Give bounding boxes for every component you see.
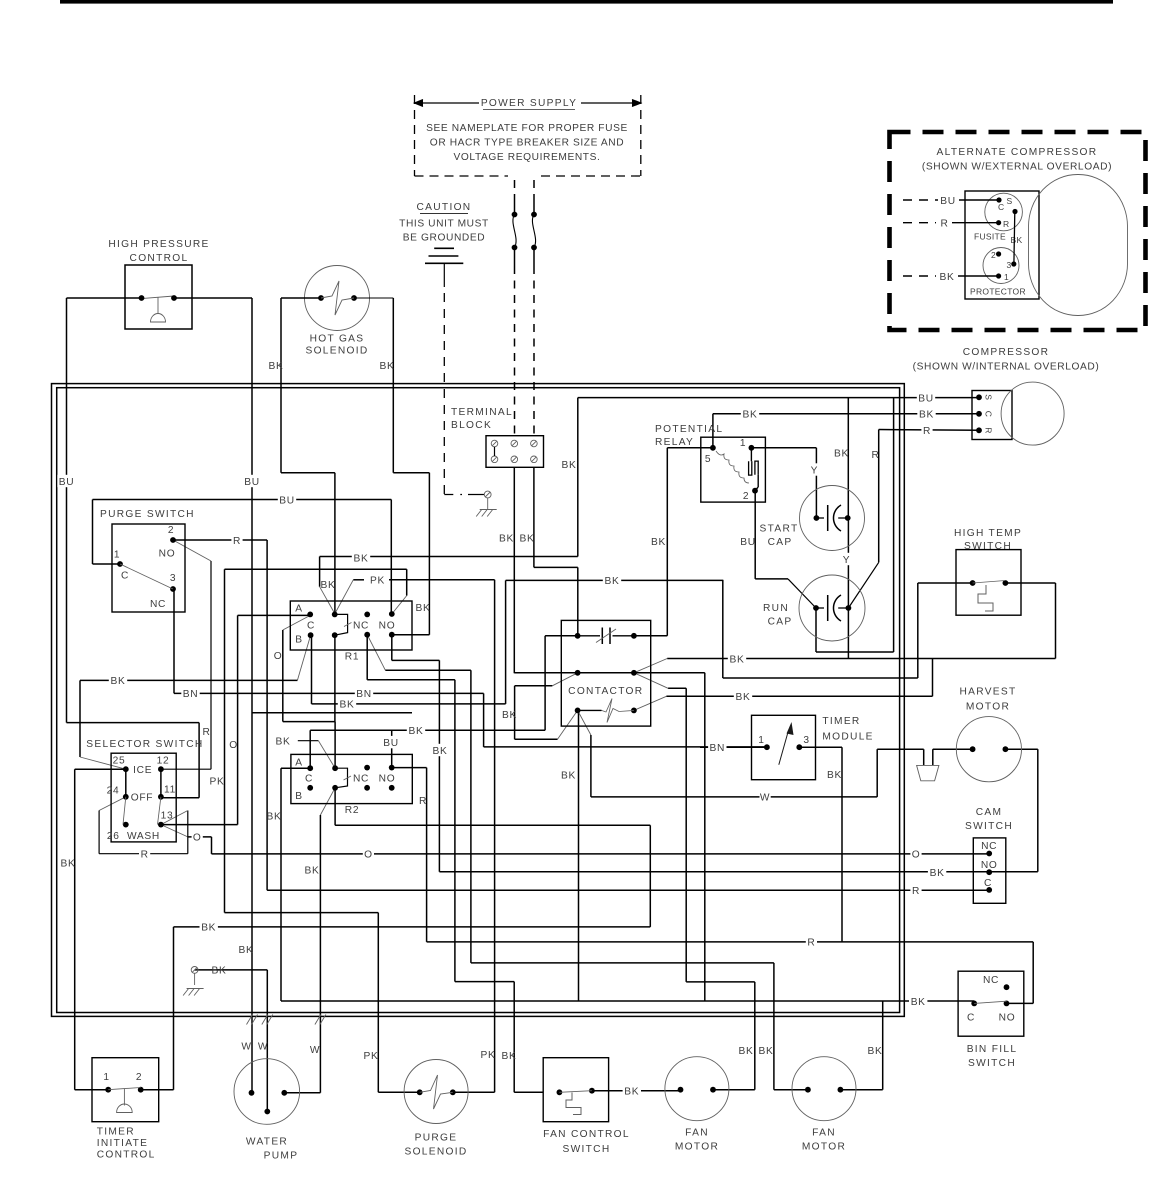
timer initiate control <box>92 1058 159 1122</box>
svg-text:R: R <box>807 938 815 949</box>
svg-text:W: W <box>258 1042 268 1053</box>
svg-text:WASH: WASH <box>127 831 160 842</box>
enclosure outer border <box>52 384 905 1017</box>
power lead wire x=514.5 <box>514 180 516 196</box>
R1 contact bracket <box>335 614 348 635</box>
wire: R2 C-bottom BK down to water pump right <box>320 788 335 815</box>
svg-text:CONTROL: CONTROL <box>97 1150 156 1161</box>
svg-text:COMPRESSOR: COMPRESSOR <box>963 347 1050 358</box>
contactor coil <box>578 709 602 711</box>
wire: potential relay 5 to contactor top-right <box>667 447 713 449</box>
svg-text:OR HACR TYPE BREAKER SIZE AND: OR HACR TYPE BREAKER SIZE AND <box>430 138 624 149</box>
svg-text:BK: BK <box>380 361 395 372</box>
svg-text:BK: BK <box>743 410 758 421</box>
svg-text:R: R <box>419 796 427 807</box>
svg-text:CAM: CAM <box>976 807 1003 818</box>
wire: run cap left to compressor S riser <box>815 608 817 652</box>
svg-text:3: 3 <box>1006 260 1011 270</box>
wire: O net R1-A diag to R2 C-top <box>283 615 310 630</box>
wire: purge sw 2 R net down to cam switch C <box>173 539 267 541</box>
svg-text:2: 2 <box>136 1072 142 1083</box>
svg-text:A: A <box>295 604 303 615</box>
wire: PK net R1 NO-top to purge solenoid left <box>225 568 407 570</box>
svg-text:NO: NO <box>981 860 998 871</box>
protector circle <box>983 248 1019 284</box>
wire: contactor coil left thin to W line <box>578 710 591 735</box>
svg-text:FAN: FAN <box>685 1128 709 1139</box>
svg-text:BK: BK <box>827 770 842 781</box>
wire: BK net TIC-2 to R2 C-bottom <box>141 1089 174 1091</box>
svg-text:C: C <box>967 1013 975 1024</box>
svg-text:O: O <box>364 850 373 861</box>
wire: BK R1 NO-bottom to cam switch NO <box>391 635 393 661</box>
svg-text:BK: BK <box>651 537 666 548</box>
svg-text:TIMER: TIMER <box>97 1127 135 1138</box>
wire: R1 NC-bottom thin to fan motor 2 left <box>367 635 385 671</box>
svg-text:R: R <box>923 426 931 437</box>
selector link 25-24 <box>125 769 127 797</box>
wire: BK net R2-A to bin fill C <box>280 768 282 1001</box>
chassis ground <box>480 509 497 511</box>
svg-text:W: W <box>760 793 770 804</box>
svg-text:CONTACTOR: CONTACTOR <box>568 686 643 697</box>
svg-text:SELECTOR SWITCH: SELECTOR SWITCH <box>86 739 203 750</box>
svg-text:BK: BK <box>269 361 284 372</box>
svg-text:BK: BK <box>730 654 745 665</box>
wire: R1 C-top BK net to compressor S <box>319 557 321 587</box>
wire: HTS left BK net to R1 B <box>918 582 973 584</box>
ground screw 2 with chassis ground <box>191 967 198 974</box>
compressor terminal box <box>972 391 1012 440</box>
wire: BN net purge NC to timer module 1 <box>173 589 175 693</box>
svg-text:(SHOWN W/INTERNAL OVERLOAD): (SHOWN W/INTERNAL OVERLOAD) <box>913 362 1100 373</box>
wire: potential relay 1 to start cap left (Y) <box>751 447 816 449</box>
svg-text:INITIATE: INITIATE <box>97 1138 149 1149</box>
svg-text:BK: BK <box>212 966 227 977</box>
svg-text:PK: PK <box>364 1051 379 1062</box>
svg-text:BK: BK <box>930 868 945 879</box>
svg-text:PK: PK <box>370 576 385 587</box>
wire: long R line to bin fill NO <box>392 767 427 769</box>
svg-text:BK: BK <box>502 710 517 721</box>
svg-text:A: A <box>295 758 303 769</box>
svg-text:C: C <box>984 878 992 889</box>
svg-text:PURGE SWITCH: PURGE SWITCH <box>100 509 195 520</box>
svg-text:BK: BK <box>111 676 126 687</box>
svg-text:SWITCH: SWITCH <box>968 1058 1016 1069</box>
svg-text:VOLTAGE REQUIREMENTS.: VOLTAGE REQUIREMENTS. <box>454 152 601 163</box>
svg-text:S: S <box>1007 196 1013 206</box>
wire: timer module 3 BK down <box>799 746 842 748</box>
wire: hot gas left BK down to R2 area / bin fill <box>281 297 321 299</box>
wire: R loop selector 24-13 <box>99 797 126 811</box>
potential relay contact <box>750 448 752 462</box>
earth ground symbol <box>434 247 454 249</box>
wire: BK stub into R2 C-top <box>298 740 319 742</box>
svg-text:POWER SUPPLY: POWER SUPPLY <box>481 98 577 109</box>
svg-text:R: R <box>871 450 879 461</box>
svg-text:CAP: CAP <box>768 617 793 628</box>
svg-text:W: W <box>310 1045 320 1056</box>
wire: BK net R1-B / selector 25 / timer initiate 1 <box>297 635 310 680</box>
svg-text:NC: NC <box>353 774 369 785</box>
svg-text:1: 1 <box>114 550 120 561</box>
svg-text:BN: BN <box>183 689 199 700</box>
wire: O net selector 13 to R1 A <box>161 824 238 826</box>
wire: purge sw 1 to BU feed line <box>93 563 121 565</box>
svg-text:BK: BK <box>201 923 216 934</box>
wire: R2-A BK line to contactor top-left <box>310 729 545 731</box>
svg-text:WATER: WATER <box>246 1137 288 1148</box>
svg-text:HARVEST: HARVEST <box>959 687 1016 698</box>
svg-text:BK: BK <box>499 533 514 544</box>
svg-text:ALTERNATE COMPRESSOR: ALTERNATE COMPRESSOR <box>937 147 1098 158</box>
svg-text:BU: BU <box>383 738 399 749</box>
svg-text:(SHOWN W/EXTERNAL OVERLOAD): (SHOWN W/EXTERNAL OVERLOAD) <box>922 162 1112 173</box>
svg-text:BK: BK <box>1011 235 1023 245</box>
power lead wire x=534.0 <box>533 180 535 196</box>
svg-text:O: O <box>912 850 921 861</box>
svg-text:NO: NO <box>999 1013 1016 1024</box>
water pump <box>234 1059 300 1125</box>
svg-text:NO: NO <box>379 774 396 785</box>
svg-text:OFF: OFF <box>131 793 153 804</box>
svg-text:POTENTIAL: POTENTIAL <box>655 424 723 435</box>
svg-text:O: O <box>229 740 238 751</box>
svg-text:O: O <box>274 651 283 662</box>
svg-text:THIS UNIT MUST: THIS UNIT MUST <box>399 219 489 230</box>
svg-text:BK: BK <box>919 410 934 421</box>
svg-text:BN: BN <box>356 689 372 700</box>
svg-text:PK: PK <box>210 776 225 787</box>
contactor <box>561 620 650 726</box>
svg-text:START: START <box>760 524 799 535</box>
svg-text:S: S <box>984 394 994 400</box>
svg-text:B: B <box>295 635 303 646</box>
svg-text:BU: BU <box>940 196 956 207</box>
selector rotor 24-26 <box>123 797 126 825</box>
svg-text:ICE: ICE <box>133 765 152 776</box>
svg-text:BU: BU <box>59 477 75 488</box>
svg-text:SOLENOID: SOLENOID <box>404 1147 467 1158</box>
svg-text:Y: Y <box>811 465 819 476</box>
svg-text:BK: BK <box>759 1046 774 1057</box>
wire: compressor R to run cap <box>879 429 979 432</box>
start cap <box>800 486 865 551</box>
svg-text:NC: NC <box>983 975 999 986</box>
svg-text:B: B <box>295 791 303 802</box>
svg-text:BK: BK <box>562 460 577 471</box>
svg-text:RELAY: RELAY <box>655 437 694 448</box>
relay R2 <box>291 754 412 803</box>
svg-text:HOT GAS: HOT GAS <box>310 334 365 345</box>
svg-text:C: C <box>305 774 313 785</box>
svg-text:11: 11 <box>164 785 176 796</box>
svg-text:R: R <box>202 727 210 738</box>
wire: start cap right to run cap right (Y) <box>847 518 849 608</box>
svg-text:FAN CONTROL: FAN CONTROL <box>543 1129 630 1140</box>
svg-text:Y: Y <box>843 555 851 566</box>
svg-text:CAP: CAP <box>768 537 793 548</box>
wire: contactor coil left BK down <box>578 710 580 1001</box>
svg-text:NO: NO <box>159 549 176 560</box>
wire: R thin link purge-2 to selector 12 <box>173 540 211 561</box>
svg-text:BK: BK <box>561 771 576 782</box>
svg-text:BK: BK <box>940 272 955 283</box>
svg-text:R: R <box>233 536 241 547</box>
svg-text:1: 1 <box>1004 272 1009 282</box>
svg-text:R: R <box>984 427 994 433</box>
svg-text:SOLENOID: SOLENOID <box>305 346 368 357</box>
svg-text:BK: BK <box>409 726 424 737</box>
wire: R1 C-bottom down to R2 C-top <box>334 635 336 721</box>
wire: potential relay 5 BK line to compressor C <box>713 413 979 415</box>
purge solenoid <box>404 1060 468 1124</box>
wire: PK net R1 C-top to purge solenoid right <box>353 579 364 581</box>
fan motor 2 <box>792 1057 856 1121</box>
svg-text:R: R <box>912 886 920 897</box>
svg-text:24: 24 <box>107 786 120 797</box>
svg-text:C: C <box>307 621 315 632</box>
svg-text:R1: R1 <box>345 652 359 663</box>
svg-text:PUMP: PUMP <box>264 1151 299 1162</box>
svg-text:SWITCH: SWITCH <box>964 541 1012 552</box>
svg-text:CONTROL: CONTROL <box>130 253 189 264</box>
svg-text:O: O <box>193 833 202 844</box>
svg-text:BK: BK <box>267 812 282 823</box>
svg-text:2: 2 <box>743 491 749 502</box>
svg-text:NC: NC <box>981 841 997 852</box>
compressor body <box>1001 382 1064 445</box>
svg-text:C: C <box>121 571 129 582</box>
wire: O net selector 13 to cam switch NC <box>161 825 188 837</box>
svg-text:HIGH TEMP: HIGH TEMP <box>954 528 1022 539</box>
wire: BK bus y658 contactor to HTS right <box>667 658 1055 660</box>
svg-text:BE GROUNDED: BE GROUNDED <box>403 233 485 244</box>
wire: BU net HPC-left down to selector 11 <box>67 297 142 299</box>
svg-text:R2: R2 <box>345 805 359 816</box>
high pressure control box <box>125 265 192 329</box>
svg-text:SEE NAMEPLATE FOR PROPER FUSE: SEE NAMEPLATE FOR PROPER FUSE <box>426 123 628 134</box>
svg-text:3: 3 <box>170 573 176 584</box>
svg-text:NO: NO <box>379 621 396 632</box>
power supply dashed box <box>415 102 480 104</box>
svg-text:BK: BK <box>605 576 620 587</box>
ground screw lug <box>484 491 491 498</box>
selector link 12-11 <box>160 769 162 797</box>
wire: contactor mid-right to fan motor 1 right <box>634 673 668 689</box>
hot gas solenoid body <box>305 266 370 331</box>
svg-text:MOTOR: MOTOR <box>675 1142 719 1153</box>
enclosure inner border <box>57 388 900 1013</box>
svg-text:3: 3 <box>803 735 809 746</box>
alt compressor R lead <box>903 222 936 224</box>
svg-text:SWITCH: SWITCH <box>563 1144 611 1155</box>
contactor NC contact <box>578 635 600 637</box>
svg-text:BN: BN <box>710 743 726 754</box>
wire: TB middle BK down to contactor middle row <box>513 467 515 673</box>
alt compressor inner unit box <box>965 191 1039 299</box>
wire: hot gas right BK to R1 NO-bottom <box>354 297 393 299</box>
selector rotor 11-13 <box>158 797 161 825</box>
svg-text:25: 25 <box>113 756 126 767</box>
svg-text:BK: BK <box>433 746 448 757</box>
svg-text:BK: BK <box>340 700 355 711</box>
svg-text:FUSITE: FUSITE <box>974 232 1006 242</box>
svg-text:C: C <box>984 411 994 417</box>
bin fill switch <box>958 971 1024 1036</box>
fan motor 1 <box>665 1057 729 1121</box>
wire: R1 NC-bottom to fan control switch <box>366 635 368 680</box>
alternate compressor dashed box <box>890 132 1146 330</box>
border jump arrows on W wires <box>247 1015 253 1025</box>
svg-text:W: W <box>241 1042 251 1053</box>
svg-text:BK: BK <box>868 1046 883 1057</box>
fusite circle <box>985 193 1023 231</box>
wire: contactor middle row <box>514 672 705 674</box>
hpc diaphragm <box>157 298 159 314</box>
svg-text:BU: BU <box>918 393 934 404</box>
svg-text:1: 1 <box>740 438 746 449</box>
top title bar <box>60 0 1113 4</box>
svg-text:RUN: RUN <box>763 603 789 614</box>
wire: run cap left BU feed from potential relay 2 <box>754 491 756 579</box>
wire: BU net HPC-right long vertical to water pump left <box>174 297 252 299</box>
svg-text:12: 12 <box>157 756 170 767</box>
svg-text:BK: BK <box>354 553 369 564</box>
svg-text:BU: BU <box>244 477 260 488</box>
svg-text:BK: BK <box>911 997 926 1008</box>
svg-text:C: C <box>998 202 1004 212</box>
svg-text:BK: BK <box>321 580 336 591</box>
svg-text:NC: NC <box>150 599 166 610</box>
svg-text:PK: PK <box>481 1050 496 1061</box>
svg-text:BLOCK: BLOCK <box>451 420 492 431</box>
svg-text:TERMINAL: TERMINAL <box>451 407 513 418</box>
harvest protector trapezoid <box>917 765 939 780</box>
wire: TB right column to contactor top-left <box>533 467 535 567</box>
wire: fan motor 2 right BK up <box>840 1089 882 1091</box>
svg-text:BK: BK <box>239 945 254 956</box>
svg-text:BK: BK <box>520 533 535 544</box>
fan control switch <box>543 1058 608 1122</box>
alt compressor stadium body <box>1029 175 1128 316</box>
dashed ground wire <box>443 293 445 495</box>
hpc contact arm <box>142 296 175 299</box>
svg-text:26: 26 <box>107 831 120 842</box>
svg-text:BK: BK <box>276 737 291 748</box>
svg-text:2: 2 <box>168 525 174 536</box>
svg-text:13: 13 <box>161 811 174 822</box>
svg-text:SWITCH: SWITCH <box>965 821 1013 832</box>
alt compressor BU lead <box>903 199 938 201</box>
svg-text:BK: BK <box>834 448 849 459</box>
wire: fan control sw right to fan motor 1 left <box>592 1090 681 1092</box>
svg-text:BK: BK <box>502 1051 517 1062</box>
svg-text:BK: BK <box>736 692 751 703</box>
svg-text:TIMER: TIMER <box>822 716 860 727</box>
svg-text:HIGH PRESSURE: HIGH PRESSURE <box>108 239 209 250</box>
svg-text:BK: BK <box>61 858 76 869</box>
alt compressor C-3 wire <box>1013 212 1016 265</box>
svg-text:MOTOR: MOTOR <box>802 1142 846 1153</box>
wire: water pump middle / ground screw <box>266 970 268 1112</box>
svg-text:BK: BK <box>739 1046 754 1057</box>
svg-text:BK: BK <box>624 1087 639 1098</box>
relay R1 <box>290 601 412 650</box>
timer arrow hand <box>779 731 789 765</box>
svg-text:BU: BU <box>279 495 295 506</box>
svg-text:PURGE: PURGE <box>415 1133 458 1144</box>
wire: timer module BN lead <box>700 746 767 748</box>
svg-text:NC: NC <box>353 621 369 632</box>
svg-text:2: 2 <box>991 250 996 260</box>
svg-text:MOTOR: MOTOR <box>966 702 1010 713</box>
svg-text:R: R <box>1003 219 1009 229</box>
svg-text:BIN FILL: BIN FILL <box>967 1044 1018 1055</box>
wire: W net to harvest motor <box>591 796 877 798</box>
svg-text:FAN: FAN <box>812 1128 836 1139</box>
svg-text:BK: BK <box>416 603 431 614</box>
svg-text:R: R <box>141 850 149 861</box>
wire: contactor mid-left diag to coil feed <box>552 673 577 686</box>
alt compressor BK lead <box>903 275 936 277</box>
wire: BU jog at y713 <box>252 712 412 714</box>
tb left column link <box>494 447 496 456</box>
svg-text:MODULE: MODULE <box>822 732 873 743</box>
run cap <box>799 575 865 641</box>
svg-text:1: 1 <box>103 1072 109 1083</box>
svg-text:5: 5 <box>705 454 711 465</box>
svg-text:BK: BK <box>305 866 320 877</box>
svg-text:PROTECTOR: PROTECTOR <box>970 287 1026 297</box>
svg-text:1: 1 <box>758 735 764 746</box>
svg-text:R: R <box>940 219 948 230</box>
svg-text:BU: BU <box>740 537 756 548</box>
svg-text:CAUTION: CAUTION <box>417 202 472 213</box>
